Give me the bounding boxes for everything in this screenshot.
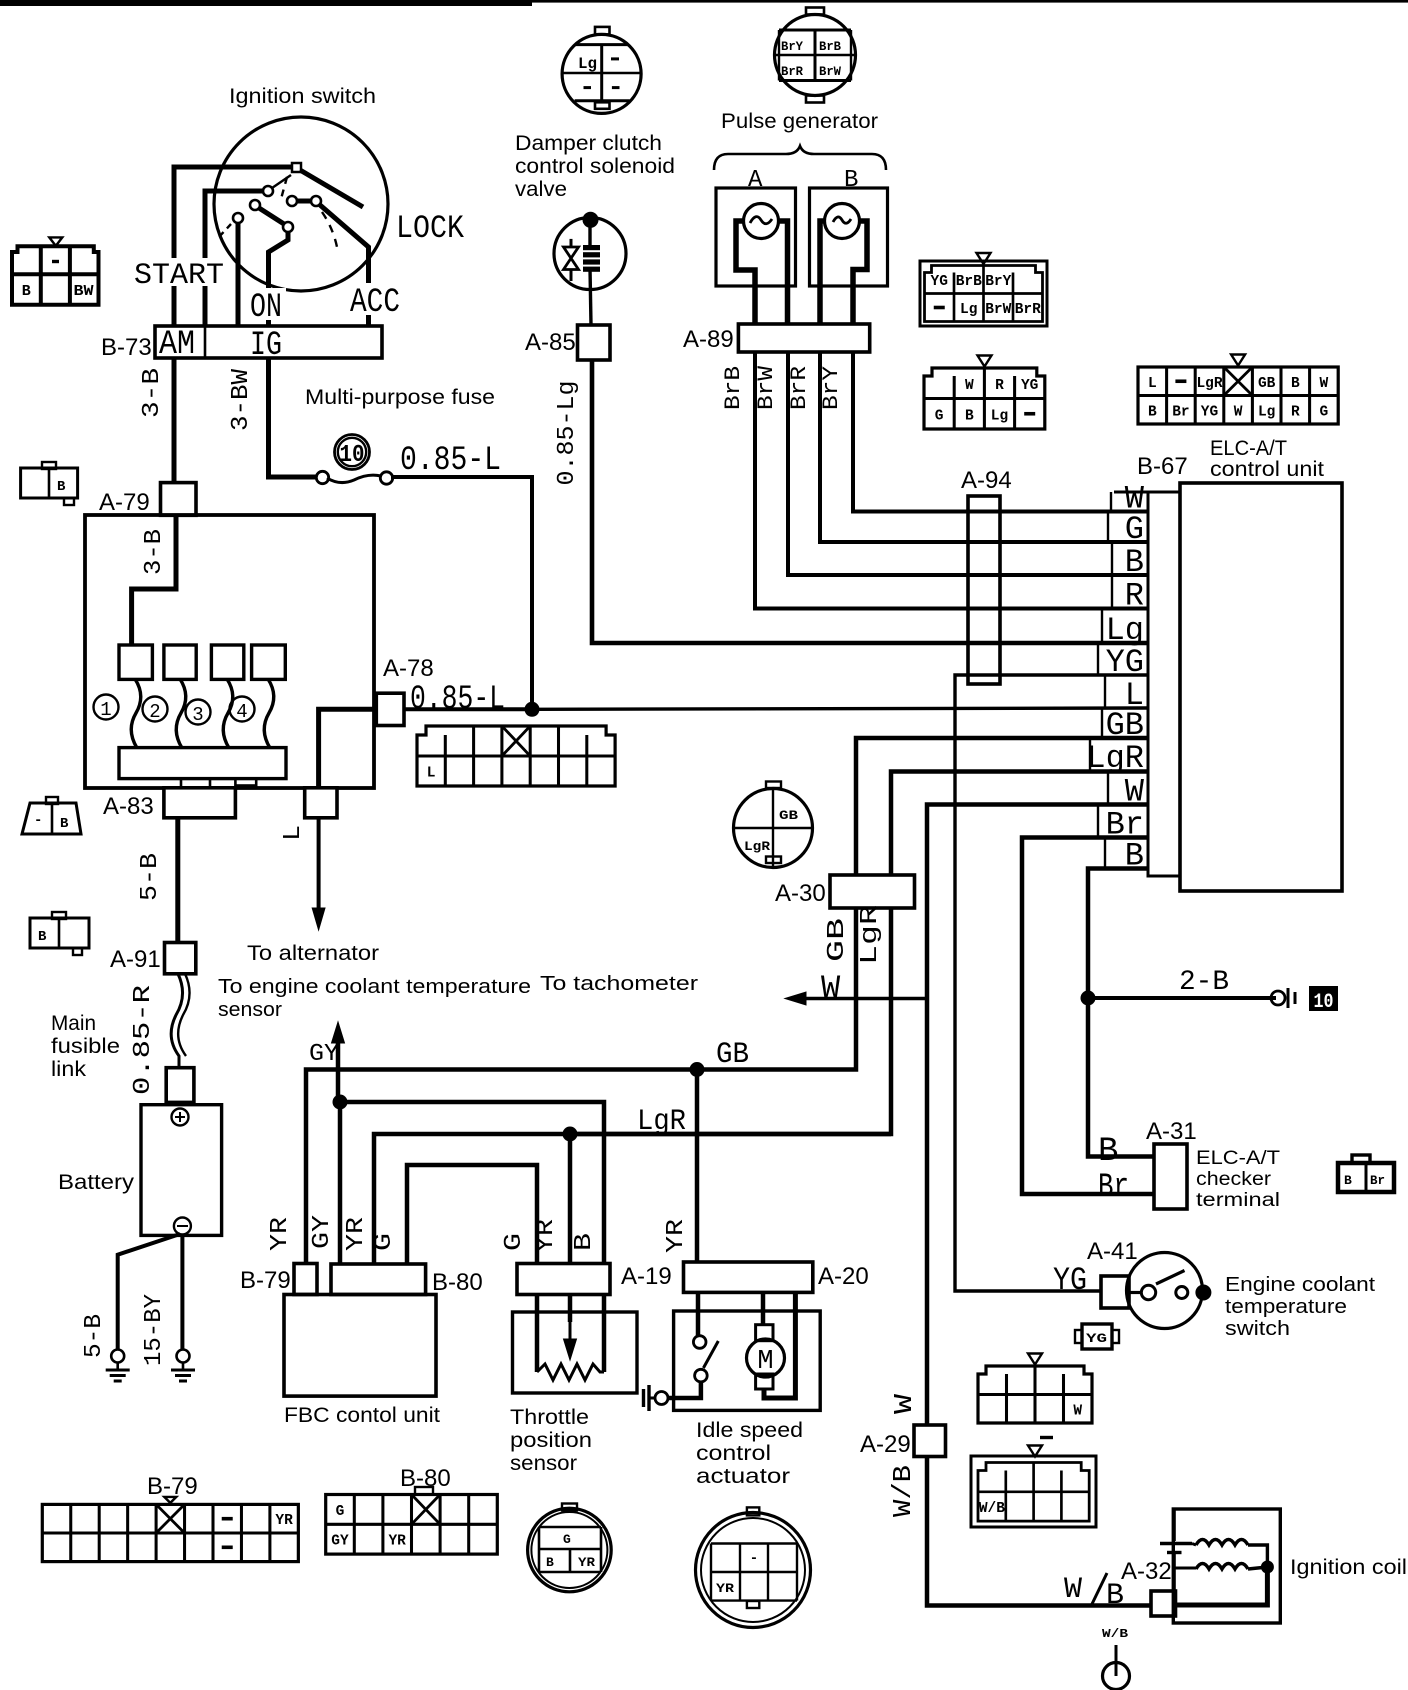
contact ON lower <box>283 222 293 232</box>
svg-text:FBC contol unit: FBC contol unit <box>284 1404 440 1427</box>
pin cell LgR at y=771 <box>1089 738 1091 771</box>
svg-text:B: B <box>965 408 974 424</box>
connector view grid near A-29 (W) <box>1028 1354 1042 1365</box>
svg-text:10: 10 <box>1314 991 1334 1014</box>
svg-text:YR: YR <box>663 1219 690 1253</box>
svg-text:Engine coolant: Engine coolant <box>1225 1274 1375 1296</box>
idle switch contact bottom <box>695 1369 708 1382</box>
contact IG <box>233 213 243 223</box>
fuse 4 box <box>252 645 286 679</box>
wire ACC (contact to bar) <box>320 205 369 326</box>
page top border <box>0 0 532 6</box>
svg-text:W/B: W/B <box>979 1501 1005 1517</box>
idle switch to ground wire <box>668 1382 701 1398</box>
fuse 4 element <box>264 679 274 748</box>
svg-text:G: G <box>371 1233 398 1251</box>
svg-text:W: W <box>1073 1403 1082 1419</box>
svg-text:GB: GB <box>824 918 851 962</box>
connector A-31 <box>1154 1144 1187 1209</box>
svg-text:BrY: BrY <box>819 366 844 410</box>
svg-text:L: L <box>1148 376 1157 392</box>
damper solenoid valve symbol <box>554 218 626 290</box>
wire 15-BY to ground <box>180 1234 184 1349</box>
svg-text:YR: YR <box>267 1217 294 1251</box>
terminal wire <box>1115 1645 1118 1676</box>
wire BrY (A-89 to W pin) <box>853 352 1148 512</box>
svg-text:BrY: BrY <box>985 274 1011 290</box>
svg-text:BrW: BrW <box>985 302 1011 318</box>
dashed pivot lines <box>272 175 291 188</box>
connector A-19 <box>517 1264 610 1295</box>
svg-text:BrB: BrB <box>956 274 982 290</box>
svg-text:2: 2 <box>149 701 160 723</box>
pin cell R at y=608.5 <box>1111 575 1113 609</box>
ACC label <box>346 283 404 315</box>
coil winding right leads <box>1248 1545 1267 1567</box>
connector view grid YG/BrB/BrY (double border) <box>920 261 1047 326</box>
svg-text:5-B: 5-B <box>81 1314 108 1358</box>
connector A-79 <box>161 483 197 516</box>
svg-text:position: position <box>510 1429 592 1452</box>
svg-text:10: 10 <box>340 442 365 469</box>
connector A-20 <box>684 1262 813 1292</box>
svg-text:A-30: A-30 <box>775 880 826 907</box>
svg-text:LgR: LgR <box>744 839 770 854</box>
idle motor return wire <box>764 1292 795 1398</box>
connector view -/B/BW <box>12 246 99 304</box>
wire 3-B inside fuse box <box>132 515 176 645</box>
ignition switch LOCK lever <box>300 170 363 207</box>
wire IG (contact to bar) <box>236 223 241 326</box>
svg-text:-: - <box>34 813 42 829</box>
idle speed control actuator box <box>674 1311 821 1410</box>
svg-text:BrY: BrY <box>781 39 803 54</box>
pin cell YG at y=675 <box>1097 643 1099 675</box>
svg-text:switch: switch <box>1225 1318 1290 1340</box>
connector A-94 <box>968 496 1000 684</box>
connector view grid W/R/YG <box>978 356 992 367</box>
battery minus terminal <box>174 1218 191 1235</box>
contact ACC-row right <box>311 196 321 206</box>
svg-text:BrW: BrW <box>819 64 841 79</box>
svg-text:ACC: ACC <box>350 284 400 322</box>
idle motor bottom tab <box>756 1374 773 1389</box>
wire LgR (A-30 down, left) <box>570 908 891 1134</box>
wire LgR (LgR pin to A-30) <box>891 772 1148 876</box>
B-67 connector body <box>1148 492 1180 876</box>
wire GY arrow up <box>336 1035 341 1102</box>
svg-text:ON: ON <box>250 289 282 327</box>
svg-text:A-78: A-78 <box>383 655 434 682</box>
svg-text:BrR: BrR <box>1015 302 1041 318</box>
svg-text:GY: GY <box>331 1534 349 1550</box>
svg-text:B-79: B-79 <box>240 1267 291 1294</box>
wire into A-32 internal <box>1173 1568 1176 1591</box>
svg-text:B: B <box>1344 1173 1352 1188</box>
wire B (GY node to A-19) <box>340 1102 604 1263</box>
svg-text:terminal: terminal <box>1196 1190 1280 1211</box>
svg-text:Battery: Battery <box>58 1171 135 1194</box>
wire LgR (left end down to B-80) <box>374 1134 891 1263</box>
svg-text:YG: YG <box>1021 378 1038 394</box>
pin cell G at y=542 <box>1107 512 1109 543</box>
svg-text:LgR: LgR <box>857 905 884 965</box>
contact ACC-row left <box>287 196 297 206</box>
ignition coil box <box>1173 1509 1280 1623</box>
svg-text:actuator: actuator <box>696 1465 790 1488</box>
connector view GB/LgR round <box>734 789 813 868</box>
svg-text:-: - <box>750 1551 758 1567</box>
svg-text:YR: YR <box>388 1534 406 1550</box>
B-67 top cell line <box>1114 491 1180 494</box>
fuse number 4 <box>230 697 255 722</box>
connector A-85 <box>578 325 611 360</box>
svg-text:5-B: 5-B <box>137 853 164 901</box>
svg-text:Lg: Lg <box>578 55 597 73</box>
svg-text:3-B: 3-B <box>141 529 168 575</box>
svg-text:A-79: A-79 <box>99 489 150 516</box>
svg-text:0.85-Lg: 0.85-Lg <box>554 381 581 486</box>
svg-text:sensor: sensor <box>218 999 282 1021</box>
junction dot 0.85-L <box>525 702 540 717</box>
coil capacitor <box>1173 1510 1176 1541</box>
pulse gen source A <box>744 204 779 239</box>
throttle B lead <box>602 1294 607 1372</box>
pin cell GB at y=738 <box>1101 708 1103 738</box>
pulse gen B leads <box>820 221 825 324</box>
svg-text:BrB: BrB <box>819 39 841 54</box>
connector view -/B trapezoid <box>22 803 81 834</box>
wire YG (YG pin to A-41) <box>955 675 1148 1291</box>
svg-text:Br: Br <box>1098 1169 1129 1207</box>
svg-text:B: B <box>60 816 69 832</box>
connector A-91 <box>165 943 196 974</box>
svg-text:A-32: A-32 <box>1121 1558 1172 1585</box>
svg-text:B-80: B-80 <box>432 1269 483 1296</box>
svg-text:W: W <box>889 1393 919 1414</box>
svg-text:YG: YG <box>1086 1331 1107 1346</box>
svg-text:To tachometer: To tachometer <box>540 973 698 995</box>
fuse 2 element <box>176 679 186 748</box>
wire GB (A-30 down to node) <box>697 908 856 1070</box>
wire GB (GB pin to A-30) <box>856 738 1148 875</box>
svg-text:valve: valve <box>515 178 567 201</box>
svg-text:0.85-L: 0.85-L <box>400 442 501 480</box>
svg-text:A-83: A-83 <box>103 793 154 820</box>
contact START upper <box>263 186 273 196</box>
wire between row contacts <box>297 199 311 204</box>
wire YR (B-79 up to GB node) <box>306 1070 697 1264</box>
wire ON (contact to bar) <box>269 232 289 326</box>
wire 5-B (A-83 to A-91) <box>175 818 180 943</box>
battery terminal connector <box>166 1068 194 1103</box>
svg-text:checker: checker <box>1196 1169 1272 1190</box>
bus bar tab left <box>181 779 210 788</box>
connector view YG <box>1082 1324 1112 1349</box>
svg-text:Multi-purpose fuse: Multi-purpose fuse <box>305 386 495 409</box>
svg-text:B: B <box>1148 404 1157 420</box>
svg-text:YR: YR <box>578 1555 595 1570</box>
ground battery 2 <box>177 1350 190 1363</box>
throttle G lead <box>535 1294 540 1372</box>
connector A-29 <box>914 1425 946 1457</box>
svg-text:0.85-R: 0.85-R <box>130 985 157 1095</box>
svg-text:Damper clutch: Damper clutch <box>515 132 662 155</box>
fuse 3 element <box>223 679 233 748</box>
svg-text:2-B: 2-B <box>1179 967 1229 998</box>
pulse generator brace <box>714 146 886 170</box>
svg-text:A-85: A-85 <box>525 329 576 356</box>
svg-text:B: B <box>1291 376 1300 392</box>
svg-text:GB: GB <box>1258 376 1276 392</box>
connector A-32 <box>1151 1591 1176 1616</box>
switch contact left <box>1141 1285 1155 1299</box>
dashed arc near ACC <box>322 212 337 247</box>
switch wire A-41 to contact <box>1129 1291 1143 1294</box>
svg-text:L: L <box>280 825 307 841</box>
wire Br (Br pin to A-31) <box>1022 838 1154 1195</box>
svg-text:B-67: B-67 <box>1137 453 1188 480</box>
battery plus terminal <box>172 1109 189 1126</box>
connector B-73 bar <box>155 326 382 358</box>
connector L <box>305 788 337 818</box>
fuse 2 box <box>164 645 196 679</box>
fuse 1 element <box>131 679 141 748</box>
wire W/B (A-29 down to A-32) <box>927 1457 1151 1606</box>
svg-text:B: B <box>38 929 47 945</box>
svg-text:R: R <box>995 378 1004 394</box>
coil secondary winding <box>1196 1564 1248 1570</box>
svg-text:A: A <box>748 167 763 194</box>
svg-text:BrR: BrR <box>787 366 812 410</box>
svg-text:A-94: A-94 <box>961 467 1012 494</box>
svg-text:Br: Br <box>1370 1173 1385 1188</box>
ignition switch circle <box>214 117 388 291</box>
wire GY (B-80 up) with node <box>338 1102 343 1263</box>
svg-text:GB: GB <box>716 1038 749 1072</box>
idle ground symbol <box>655 1392 668 1405</box>
pin cell W at y=804.5 <box>1107 771 1109 805</box>
svg-text:W/B: W/B <box>888 1465 918 1517</box>
connector A-83 <box>164 788 236 818</box>
svg-text:W/B: W/B <box>1102 1627 1128 1641</box>
svg-text:YR: YR <box>343 1217 370 1251</box>
fusible link squiggle <box>171 974 182 1068</box>
ON label <box>246 288 286 320</box>
wire 2-B <box>1088 996 1276 1000</box>
svg-text:BrW: BrW <box>754 365 779 410</box>
FBC control unit box <box>284 1295 436 1397</box>
svg-text:W: W <box>1064 1573 1082 1607</box>
damper clutch connector view <box>562 34 641 113</box>
svg-text:B: B <box>571 1233 598 1251</box>
svg-text:A-89: A-89 <box>683 326 734 353</box>
throttle resistor zigzag <box>537 1364 604 1380</box>
svg-text:G: G <box>1125 511 1144 548</box>
svg-text:control unit: control unit <box>1210 458 1324 481</box>
wire W (W pin down to junction) <box>927 805 1148 999</box>
idle motor M <box>747 1339 785 1377</box>
svg-text:Lg: Lg <box>960 302 977 318</box>
pin cell B at y=575 <box>1111 542 1113 575</box>
svg-text:3-BW: 3-BW <box>228 368 255 431</box>
svg-text:ELC-A/T: ELC-A/T <box>1210 437 1287 460</box>
svg-text:B-73: B-73 <box>101 334 152 361</box>
svg-text:R: R <box>1291 404 1300 420</box>
svg-text:control: control <box>696 1442 771 1465</box>
dashed tick below IG contact <box>218 224 231 238</box>
svg-text:Throttle: Throttle <box>510 1406 589 1429</box>
pulse generator connector view <box>775 15 856 96</box>
wire BrW (A-89 to B pin) <box>788 352 1148 575</box>
switch lever <box>1156 1271 1185 1285</box>
coil primary winding <box>1196 1540 1248 1546</box>
svg-text:R: R <box>1125 578 1144 615</box>
svg-text:B: B <box>57 479 66 495</box>
svg-text:Lg: Lg <box>991 408 1008 424</box>
svg-text:A-31: A-31 <box>1146 1118 1197 1145</box>
connector view B (lower) <box>30 918 89 948</box>
B-73 divider <box>204 326 207 358</box>
svg-text:G: G <box>935 408 944 424</box>
svg-text:YR: YR <box>716 1581 734 1596</box>
fuse 10 number circle <box>335 435 370 470</box>
junction dot YR/GB <box>690 1062 705 1077</box>
wire AM feed (pivot to left, down to bar) <box>174 167 292 326</box>
wire A-78 to junction <box>404 707 532 711</box>
ground ref 10 black box <box>1309 986 1338 1011</box>
connector B-79 (FBC) <box>294 1264 317 1295</box>
svg-text:G: G <box>1320 404 1329 420</box>
svg-text:A-19: A-19 <box>621 1263 672 1290</box>
svg-text:Idle speed: Idle speed <box>696 1419 803 1442</box>
svg-text:W: W <box>1320 376 1329 392</box>
svg-text:4: 4 <box>236 701 247 723</box>
svg-text:ELC-A/T: ELC-A/T <box>1196 1148 1280 1169</box>
wire L inside fuse box <box>319 709 377 788</box>
pin cell W at y=511.5 <box>1110 492 1112 512</box>
svg-text:link: link <box>51 1058 87 1081</box>
svg-text:B: B <box>22 283 31 300</box>
pin cell B at y=868.5 <box>1104 838 1106 869</box>
idle switch lever <box>703 1341 718 1368</box>
connector A-30 <box>830 875 915 908</box>
terminal circle <box>1103 1663 1130 1690</box>
svg-text:LOCK: LOCK <box>396 210 465 247</box>
svg-text:3-B: 3-B <box>139 368 166 418</box>
pin cell Br at y=837.5 <box>1097 805 1099 838</box>
svg-text:A-91: A-91 <box>110 946 161 973</box>
idle motor feed wire <box>761 1292 766 1325</box>
pulse gen A leads <box>736 221 755 324</box>
svg-text:A-41: A-41 <box>1087 1238 1138 1265</box>
wire G (B-80 to A-19) <box>407 1165 537 1263</box>
svg-text:A-20: A-20 <box>818 1263 869 1290</box>
wire W arrow (to left) <box>798 997 927 1000</box>
svg-text:Br: Br <box>1172 404 1189 420</box>
svg-text:BrB: BrB <box>721 366 746 410</box>
pin cell L at y=708 <box>1104 675 1106 708</box>
coil junction dot <box>1261 1561 1274 1574</box>
connector A-78 <box>376 693 404 725</box>
wire 0.85-Lg (A-85 to Lg pin) <box>592 360 1148 643</box>
svg-text:3: 3 <box>192 704 203 726</box>
coil winding left leads <box>1192 1544 1196 1546</box>
2-B terminal symbol <box>1271 991 1285 1005</box>
fuse element <box>316 471 328 483</box>
svg-text:A-29: A-29 <box>860 1431 911 1458</box>
connector view grid W/B (double border) <box>971 1456 1096 1527</box>
idle switch wire <box>696 1292 701 1336</box>
svg-text:Ignition coil: Ignition coil <box>1290 1556 1407 1579</box>
bus bar tab right <box>235 779 256 786</box>
switch contact right <box>1176 1287 1188 1299</box>
fuse bus bar <box>119 748 286 779</box>
svg-text:W: W <box>821 970 841 1007</box>
svg-text:sensor: sensor <box>510 1452 577 1475</box>
wire B (B pin down to 2-B node) <box>1088 869 1154 1157</box>
ignition switch pivot <box>292 163 301 172</box>
fuse number 3 <box>186 700 211 725</box>
svg-text:YG: YG <box>1201 404 1218 420</box>
wire 5-B to ground <box>118 1234 180 1349</box>
pulse generator box B <box>810 188 888 286</box>
svg-text:Pulse generator: Pulse generator <box>721 110 878 133</box>
throttle position sensor box <box>513 1312 638 1393</box>
connector A-41 <box>1101 1276 1129 1308</box>
wire START (contact to bar) <box>205 191 263 326</box>
idle motor top tab <box>756 1325 773 1341</box>
svg-text:temperature: temperature <box>1225 1296 1347 1318</box>
ELC-A/T control unit box <box>1180 483 1342 891</box>
svg-text:Lg: Lg <box>1258 404 1275 420</box>
svg-text:B: B <box>844 167 858 194</box>
wire ON lever <box>259 208 284 224</box>
wire W/B (junction down to A-29) <box>925 998 930 1425</box>
START label <box>130 258 228 286</box>
pulse gen source B <box>825 204 860 239</box>
fuse 1 box <box>119 645 152 679</box>
svg-text:G: G <box>336 1504 345 1520</box>
wire YR (node down to A-20) <box>695 1070 700 1264</box>
svg-text:control solenoid: control solenoid <box>515 155 675 178</box>
idle switch contact top <box>693 1336 706 1349</box>
connector B-80 (FBC) <box>331 1264 426 1295</box>
svg-text:YG: YG <box>1053 1262 1087 1299</box>
svg-text:YR: YR <box>275 1513 293 1529</box>
junction dot GY/B <box>333 1095 348 1110</box>
svg-text:W: W <box>1234 404 1243 420</box>
minus mark near A-29 grid <box>1040 1436 1053 1439</box>
svg-text:B: B <box>1098 1133 1118 1171</box>
fuse 3 box <box>211 645 243 679</box>
junction dot B/2-B <box>1081 991 1096 1006</box>
svg-text:W: W <box>965 378 974 394</box>
engine coolant temp switch circle <box>1127 1253 1203 1329</box>
switch output dot <box>1195 1285 1211 1301</box>
coil output path <box>1176 1567 1267 1605</box>
throttle YR lead arrow <box>568 1294 573 1322</box>
svg-text:GY: GY <box>309 1041 339 1068</box>
fuse box outline <box>85 515 374 788</box>
svg-text:GY: GY <box>309 1215 336 1249</box>
wire 0.85-L (fuse to junction) <box>391 477 532 709</box>
connector A-89 bar <box>738 324 869 352</box>
pin cell Lg at y=643 <box>1101 609 1103 644</box>
wire 3-B (bar to A-79) <box>172 358 177 483</box>
svg-text:15-BY: 15-BY <box>141 1294 168 1366</box>
fuse number 1 <box>94 695 119 720</box>
